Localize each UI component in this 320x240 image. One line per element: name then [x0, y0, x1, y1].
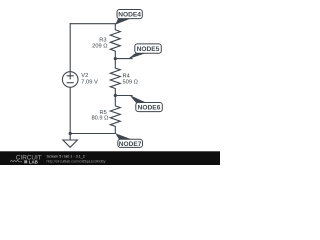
svg-text:http://circuitlab.com/c/85qa1e: http://circuitlab.com/c/85qa1e9Mdby [47, 160, 106, 164]
svg-text:80.9 Ω: 80.9 Ω [91, 115, 108, 121]
svg-text:NODE4: NODE4 [118, 11, 141, 18]
svg-text:509 Ω: 509 Ω [123, 79, 138, 85]
svg-text:Screen 5 / lab 1 - 3.1_2: Screen 5 / lab 1 - 3.1_2 [47, 155, 85, 159]
svg-text:209 Ω: 209 Ω [92, 43, 107, 49]
svg-text:NODE6: NODE6 [138, 105, 161, 112]
svg-text:7.09 V: 7.09 V [81, 80, 98, 86]
svg-text:NODE7: NODE7 [119, 141, 142, 148]
svg-text:V2: V2 [81, 73, 88, 79]
svg-text:R4: R4 [123, 73, 130, 79]
svg-text:LAB: LAB [29, 159, 38, 164]
svg-text:NODE5: NODE5 [137, 46, 160, 53]
